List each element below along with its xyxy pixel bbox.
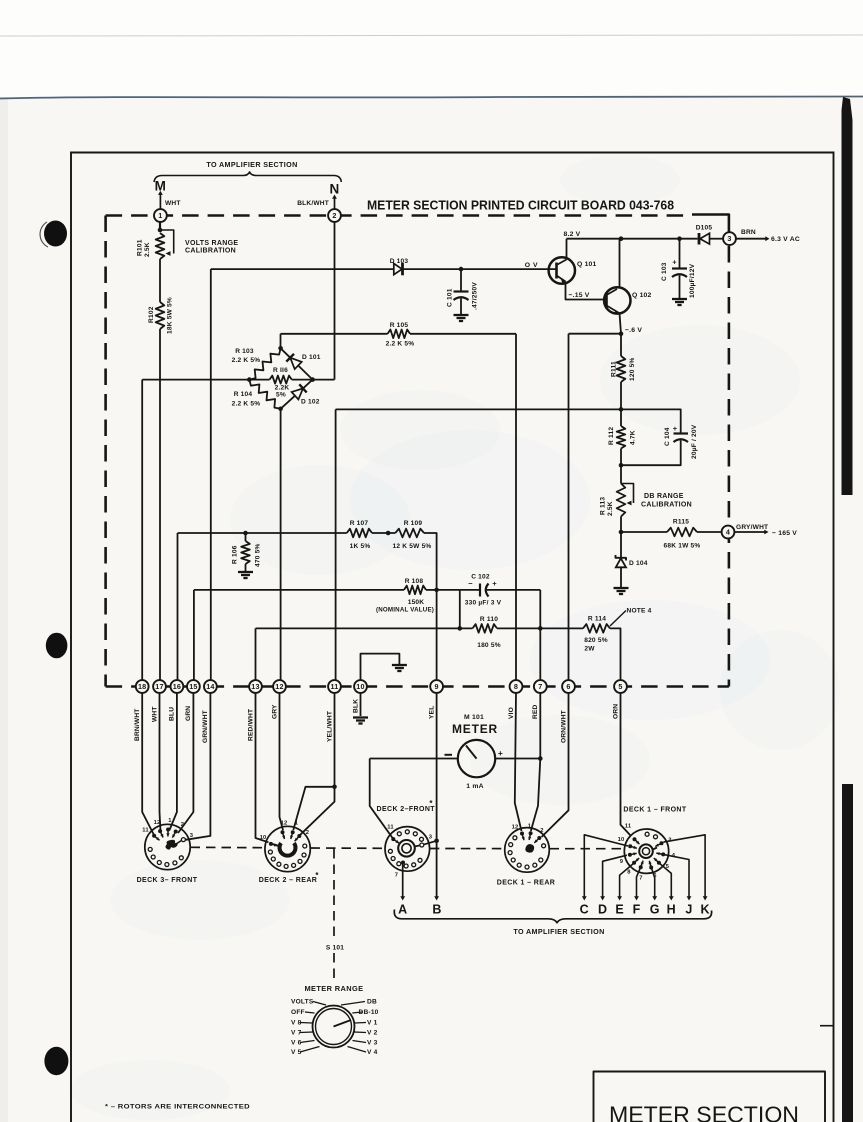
wire t10 hook to ground	[361, 654, 400, 681]
svg-text:330 µF/ 3 V: 330 µF/ 3 V	[465, 600, 502, 607]
svg-text:R 107: R 107	[350, 520, 369, 527]
svg-text:TO AMPLIFIER SECTION: TO AMPLIFIER SECTION	[206, 160, 297, 169]
right edge tick	[820, 1025, 833, 1027]
wire meter minus to deck2-front pin 11	[370, 759, 393, 839]
zener diode D104	[620, 532, 622, 558]
svg-text:METER SECTION PRINTED CIRCUIT: METER SECTION PRINTED CIRCUIT BOARD 043-…	[367, 198, 674, 213]
svg-text:20µF / 20V: 20µF / 20V	[691, 424, 698, 459]
svg-text:12: 12	[281, 821, 288, 827]
svg-text:CALIBRATION: CALIBRATION	[641, 502, 692, 509]
svg-text:VOLTS: VOLTS	[291, 999, 314, 1006]
svg-text:12: 12	[154, 820, 161, 826]
svg-text:WHT: WHT	[151, 706, 158, 722]
bleed-through tint	[350, 430, 590, 570]
dashed PCB outline top edge	[106, 214, 692, 217]
wire R101 to R102	[159, 259, 161, 302]
resistor R113 (trimmer)	[620, 465, 622, 483]
wire R113 to -165 node	[620, 517, 622, 533]
resistor R110	[473, 624, 498, 633]
svg-text:R 108: R 108	[405, 578, 424, 585]
svg-text:C 103: C 103	[661, 262, 668, 281]
wire t13 corner to R110	[255, 628, 257, 680]
title block box	[594, 1072, 826, 1122]
wire node to R115	[621, 531, 667, 533]
svg-text:12 K 5W 5%: 12 K 5W 5%	[392, 543, 431, 550]
svg-text:2W: 2W	[584, 646, 595, 653]
wire deck1-front to K	[663, 835, 705, 897]
svg-text:VOLTS RANGE: VOLTS RANGE	[185, 240, 238, 247]
svg-text:17: 17	[155, 682, 163, 691]
brace to amplifier section (top)	[154, 172, 341, 182]
svg-text:18K 5W 5%: 18K 5W 5%	[167, 297, 174, 334]
brace to amplifier section (bottom)	[394, 910, 711, 923]
svg-text:6: 6	[566, 682, 570, 691]
svg-text:M 101: M 101	[464, 714, 484, 721]
meter plus lead	[495, 758, 540, 760]
svg-text:V 5: V 5	[291, 1049, 302, 1056]
svg-text:10: 10	[260, 835, 267, 841]
svg-text:GRN/WHT: GRN/WHT	[202, 710, 209, 743]
svg-text:4: 4	[726, 528, 730, 537]
svg-text:3: 3	[190, 833, 194, 839]
terminal 8	[510, 680, 523, 693]
svg-text:D: D	[598, 903, 607, 917]
svg-text:13: 13	[251, 682, 259, 691]
svg-text:D 102: D 102	[301, 399, 320, 406]
svg-text:2: 2	[181, 822, 184, 828]
svg-text:ORN/WHT: ORN/WHT	[560, 710, 567, 743]
wire Q102 collector to rail	[619, 239, 621, 288]
wire D103 to Q101 base	[459, 267, 464, 272]
svg-text:+: +	[672, 258, 677, 267]
svg-text:RED/WHT: RED/WHT	[247, 709, 254, 741]
svg-text:V 7: V 7	[291, 1030, 302, 1037]
svg-text:BRN/WHT: BRN/WHT	[134, 708, 141, 741]
wire deck1-front to F	[637, 865, 642, 897]
svg-text:METER: METER	[452, 722, 498, 736]
wire t8 to deck1-rear pin 12	[515, 693, 522, 831]
ground for C103	[672, 298, 687, 300]
wire t14 to deck3 pin 3	[186, 693, 211, 840]
wire t11 junction	[334, 693, 336, 787]
wire BRN/WHT column t18	[141, 380, 143, 681]
svg-text:15: 15	[189, 682, 197, 691]
svg-text:GRN: GRN	[185, 706, 192, 721]
terminal 17	[153, 680, 166, 693]
svg-text:DB RANGE: DB RANGE	[644, 493, 684, 500]
svg-text:− 165 V: − 165 V	[772, 530, 797, 537]
svg-text:C 101: C 101	[447, 288, 454, 307]
wire R111 to node	[620, 382, 622, 409]
R101 trimmer bracket	[160, 230, 174, 254]
wire deck1-front to J	[663, 854, 689, 897]
wire deck1-front to H	[659, 863, 671, 897]
wire Q101 collector to 8.2V rail	[566, 239, 568, 260]
svg-text:OFF: OFF	[291, 1009, 305, 1016]
ground below terminal 10	[353, 716, 368, 718]
svg-text:10: 10	[618, 837, 625, 843]
svg-text:6.3 V AC: 6.3 V AC	[771, 236, 800, 243]
resistor R104	[249, 380, 280, 409]
wire corner t14 column	[210, 269, 212, 680]
right scan black bar lower	[842, 784, 853, 1122]
svg-text:G: G	[650, 903, 660, 917]
svg-text:2: 2	[540, 828, 543, 834]
svg-text:O V: O V	[525, 262, 538, 269]
binder hole 3	[44, 1047, 68, 1075]
svg-text:180 5%: 180 5%	[477, 642, 501, 649]
wire YEL column t9	[436, 590, 438, 681]
svg-text:(NOMINAL VALUE): (NOMINAL VALUE)	[376, 607, 434, 614]
svg-text:* – ROTORS ARE INTERCONNECTE: * – ROTORS ARE INTERCONNECTED	[105, 1104, 250, 1111]
svg-text:1: 1	[295, 821, 299, 827]
wire R102 down to terminal 17	[159, 329, 161, 681]
svg-text:2.2 K 5%: 2.2 K 5%	[232, 357, 261, 364]
svg-text:R 103: R 103	[235, 348, 254, 355]
svg-text:BLU: BLU	[169, 707, 176, 721]
svg-text:11: 11	[625, 824, 632, 830]
resistor R106	[243, 531, 248, 536]
svg-text:RED: RED	[532, 704, 539, 719]
solid top-right corner of PCB outline to terminal 3	[692, 215, 729, 232]
svg-text:D105: D105	[696, 225, 713, 232]
svg-text:R115: R115	[673, 519, 689, 526]
svg-text:+: +	[673, 424, 678, 433]
svg-text:V 4: V 4	[367, 1049, 378, 1056]
svg-text:C 102: C 102	[471, 574, 490, 581]
capacitor C103	[679, 239, 681, 268]
top scan edge lines	[0, 35, 863, 36]
svg-text:12: 12	[275, 682, 283, 691]
8.2V supply rail	[567, 238, 698, 240]
svg-text:1: 1	[528, 824, 532, 830]
svg-text:H: H	[667, 903, 676, 917]
svg-text:16: 16	[173, 682, 181, 691]
svg-text:12: 12	[512, 825, 519, 831]
svg-text:C: C	[580, 903, 589, 917]
svg-text:5: 5	[618, 682, 622, 691]
wire deck1-front to G	[650, 865, 654, 897]
svg-text:68K 1W 5%: 68K 1W 5%	[664, 543, 701, 550]
wire t7 to deck1-rear pin 1	[539, 693, 541, 759]
svg-text:R 105: R 105	[390, 322, 409, 329]
wire t2 down to bridge right corner	[334, 222, 336, 380]
resistor R114	[583, 624, 610, 633]
svg-text:DECK 3– FRONT: DECK 3– FRONT	[137, 877, 198, 884]
deck3 rotor	[166, 840, 178, 850]
svg-text:V 6: V 6	[291, 1040, 302, 1047]
svg-text:R 114: R 114	[588, 616, 606, 623]
svg-text:R 110: R 110	[480, 616, 498, 623]
right scan black bar upper	[842, 97, 853, 495]
svg-text:NOTE 4: NOTE 4	[627, 608, 652, 615]
wire t17 to deck3 pin 12	[160, 693, 161, 831]
wire deck1-front to D	[603, 855, 627, 897]
terminal 15	[187, 680, 200, 693]
binder hole 1	[44, 221, 67, 247]
resistor R109	[395, 529, 424, 538]
wire bridge bottom to t12	[280, 409, 282, 681]
svg-text:9: 9	[620, 859, 624, 865]
terminal 18	[136, 680, 149, 693]
svg-text:BRN: BRN	[741, 229, 756, 236]
svg-text:820 5%: 820 5%	[584, 637, 608, 644]
svg-text:4.7K: 4.7K	[630, 430, 637, 445]
svg-text:2.5K: 2.5K	[144, 242, 151, 257]
svg-text:DECK 2–FRONT: DECK 2–FRONT	[377, 806, 436, 813]
svg-text:S 101: S 101	[326, 945, 344, 952]
svg-text:ORN: ORN	[612, 704, 619, 719]
svg-text:2.2 K 5%: 2.2 K 5%	[232, 401, 261, 408]
svg-text:120 5%: 120 5%	[629, 357, 636, 381]
svg-text:R 113: R 113	[600, 497, 607, 515]
deck1-front rotor	[639, 844, 653, 858]
switch wafer DECK 2 - FRONT	[385, 827, 430, 872]
svg-text:7: 7	[538, 682, 542, 691]
svg-text:F: F	[633, 903, 641, 917]
svg-text:8: 8	[514, 682, 518, 691]
svg-text:V 8: V 8	[291, 1020, 302, 1027]
wire t15 corner to R108	[193, 590, 195, 681]
diode D102	[281, 396, 295, 409]
wire t18 to deck3 pin 11	[142, 693, 154, 836]
wire R105 line	[281, 333, 388, 335]
deck2-rear rotor contact to pin 10	[273, 844, 281, 846]
wire deck1-front to E	[620, 864, 633, 897]
binder hole 2	[46, 633, 68, 659]
transistor Q102	[604, 287, 630, 313]
svg-text:D 101: D 101	[302, 354, 321, 361]
wire -.6V to R111	[620, 334, 622, 356]
switch wafer DECK 2 - REAR	[265, 826, 310, 871]
deck3 rotor contact to pin 3	[176, 841, 182, 845]
svg-text:3: 3	[727, 234, 731, 243]
wire R105 corner down (VIO column t8)	[515, 334, 517, 681]
svg-text:R II6: R II6	[273, 367, 288, 374]
svg-text:8.2 V: 8.2 V	[564, 231, 581, 238]
svg-text:GRY/WHT: GRY/WHT	[736, 524, 768, 531]
wire node line to t11 corner	[336, 408, 621, 410]
svg-text:2.2 K 5%: 2.2 K 5%	[386, 341, 415, 348]
svg-text:DB: DB	[367, 999, 377, 1006]
svg-text:−: −	[468, 579, 473, 588]
deck2-front rotor arm to pin 3	[415, 845, 421, 846]
svg-text:1K 5%: 1K 5%	[350, 543, 371, 550]
diode D105	[698, 233, 701, 245]
svg-text:+: +	[492, 579, 497, 588]
svg-text:YEL/WHT: YEL/WHT	[326, 711, 333, 742]
wire Q102 emitter to -.6V node	[620, 313, 622, 334]
switch wafer DECK 3 - FRONT	[145, 824, 190, 869]
terminal 9	[430, 680, 443, 693]
rotor interconnect dashed line	[191, 846, 265, 848]
wire t6 to deck1-rear pin 2	[542, 693, 569, 837]
wire to D103	[211, 268, 394, 270]
wire t15 to deck3 pin 2	[178, 693, 193, 833]
dashed drop to S101	[333, 849, 335, 937]
terminal 12	[273, 680, 286, 693]
svg-text:11: 11	[142, 828, 149, 834]
wire R114 corner down to t5	[610, 628, 621, 680]
dashed PCB outline bottom edge	[106, 685, 729, 688]
wire t11 to deck2-rear pin 1	[293, 787, 334, 830]
svg-text:N: N	[330, 182, 340, 197]
switch wafer DECK 1 - FRONT	[624, 829, 668, 873]
svg-text:BLK: BLK	[352, 699, 359, 713]
note 4 callout	[610, 611, 626, 627]
wire R109 corner down	[424, 533, 437, 590]
svg-text:−.6 V: −.6 V	[625, 327, 642, 334]
deck2-front pin 7 wire to A	[401, 861, 405, 865]
terminal 2	[328, 209, 341, 222]
svg-text:K: K	[700, 903, 709, 917]
svg-text:WHT: WHT	[165, 200, 181, 207]
svg-text:9: 9	[434, 682, 438, 691]
svg-text:V 2: V 2	[367, 1030, 378, 1037]
svg-text:7: 7	[395, 873, 398, 879]
terminal 7	[534, 680, 547, 693]
resistor R105	[388, 330, 410, 339]
resistor R102	[156, 302, 165, 329]
terminal 10	[354, 680, 367, 693]
capacitor C104	[621, 409, 681, 433]
dashed PCB outline left edge	[104, 216, 107, 687]
svg-text:8: 8	[627, 870, 631, 876]
wire terminal4 arrow -165V	[735, 531, 767, 533]
switch S101 METER RANGE knob	[313, 1006, 355, 1048]
svg-text:GRY: GRY	[271, 704, 278, 719]
wire t12 to deck2-rear pin 12	[280, 693, 284, 830]
svg-text:B: B	[432, 903, 441, 917]
svg-text:J: J	[685, 903, 692, 917]
svg-text:D 104: D 104	[629, 560, 648, 567]
wire -.6V node to ORN/WHT column	[569, 333, 622, 335]
svg-text:11: 11	[331, 682, 339, 691]
resistor R101	[156, 233, 165, 259]
dashed PCB outline right edge	[728, 246, 731, 687]
svg-text:METER RANGE: METER RANGE	[304, 984, 363, 993]
svg-text:DECK 1 – FRONT: DECK 1 – FRONT	[623, 807, 686, 814]
svg-text:R111: R111	[611, 361, 618, 377]
terminal 14	[204, 680, 217, 693]
svg-text:YEL: YEL	[428, 706, 435, 719]
svg-text:R 104: R 104	[234, 391, 253, 398]
svg-text:V 1: V 1	[367, 1020, 378, 1027]
resistor R111	[617, 356, 626, 382]
meter minus lead	[370, 758, 458, 760]
terminal 6	[562, 680, 575, 693]
wire t16 to deck3 pin 1	[170, 693, 177, 830]
svg-text:DECK 1 – REAR: DECK 1 – REAR	[497, 880, 556, 887]
svg-text:CALIBRATION: CALIBRATION	[185, 248, 236, 255]
meter M101	[458, 740, 495, 777]
svg-text:DECK 2 – REAR: DECK 2 – REAR	[259, 877, 318, 884]
svg-text:.47/250V: .47/250V	[472, 282, 479, 310]
wire bridge left to t18 corner	[142, 379, 249, 381]
ground (between t10 and t9)	[392, 664, 407, 666]
svg-text:Q 101: Q 101	[577, 261, 597, 268]
svg-text:R101: R101	[137, 239, 144, 256]
terminal 4	[722, 526, 735, 539]
wire t16 corner to resistor network	[177, 533, 179, 681]
svg-text:E: E	[615, 903, 624, 917]
svg-text:2: 2	[332, 211, 336, 220]
ground for R106	[238, 571, 253, 573]
svg-text:10: 10	[356, 682, 364, 691]
wire t10 to lower ground	[360, 693, 362, 716]
diode D103	[394, 264, 402, 275]
wire terminal1 to R101	[159, 222, 161, 230]
wire bridge top to R105 line	[280, 334, 282, 349]
svg-text:7: 7	[639, 876, 642, 882]
deck2-rear rotor	[280, 843, 296, 856]
svg-text:1: 1	[168, 818, 172, 824]
transistor Q101	[549, 257, 575, 283]
wire t11 to deck2-rear pin 2	[300, 787, 334, 835]
wire t9 to B	[436, 693, 438, 841]
svg-text:2: 2	[306, 830, 309, 836]
wire ORN/WHT column t6	[568, 334, 570, 681]
diode D101	[281, 348, 291, 357]
resistor R116	[249, 379, 269, 381]
svg-text:2.2K: 2.2K	[275, 385, 290, 392]
svg-text:100µF/12V: 100µF/12V	[689, 263, 696, 298]
svg-text:BLK/WHT: BLK/WHT	[297, 200, 329, 207]
svg-text:TO AMPLIFIER SECTION: TO AMPLIFIER SECTION	[513, 927, 604, 936]
svg-text:1: 1	[158, 211, 162, 220]
terminal 11	[328, 680, 341, 693]
terminal 3	[723, 232, 736, 245]
ground for C101	[454, 314, 469, 316]
svg-text:5%: 5%	[276, 392, 286, 399]
terminal 16	[171, 680, 184, 693]
wire Q101 emitter to Q102 base	[566, 282, 605, 300]
capacitor C101	[460, 269, 462, 291]
resistor R108	[404, 586, 426, 595]
ground for D104	[614, 587, 629, 589]
deck1-front rotor arm	[653, 848, 657, 850]
svg-text:3: 3	[429, 835, 433, 841]
svg-text:2.5K: 2.5K	[607, 501, 614, 516]
svg-text:VIO: VIO	[508, 707, 515, 719]
svg-text:Q 102: Q 102	[632, 292, 652, 299]
wire YEL/WHT column t11	[335, 409, 337, 680]
svg-text:14: 14	[206, 682, 214, 691]
capacitor C102	[437, 589, 460, 591]
terminal 13	[249, 680, 262, 693]
svg-text:R 112: R 112	[608, 427, 615, 445]
bridge corner junctions	[278, 346, 283, 351]
svg-text:470 5%: 470 5%	[255, 543, 262, 567]
svg-text:R 106: R 106	[232, 545, 239, 564]
svg-text:150K: 150K	[408, 599, 425, 606]
svg-text:+: +	[498, 748, 503, 758]
svg-text:R 109: R 109	[404, 520, 423, 527]
resistor R112	[620, 409, 622, 426]
svg-text:11: 11	[387, 825, 394, 831]
resistor R107	[347, 529, 372, 538]
svg-text:D 103: D 103	[390, 258, 409, 265]
wire t13 to deck2-rear pin 10	[256, 693, 269, 842]
wire deck1-front to C	[584, 835, 628, 897]
wire C102 right corner down (RED t7)	[539, 590, 541, 681]
svg-text:R102: R102	[148, 306, 155, 323]
wire t5 to deck1-front pin 11	[621, 693, 632, 836]
svg-text:A: A	[398, 903, 407, 917]
svg-text:18: 18	[138, 682, 146, 691]
svg-text:METER SECTION: METER SECTION	[609, 1102, 799, 1122]
wire terminal3 to 6.3VAC	[736, 238, 768, 240]
